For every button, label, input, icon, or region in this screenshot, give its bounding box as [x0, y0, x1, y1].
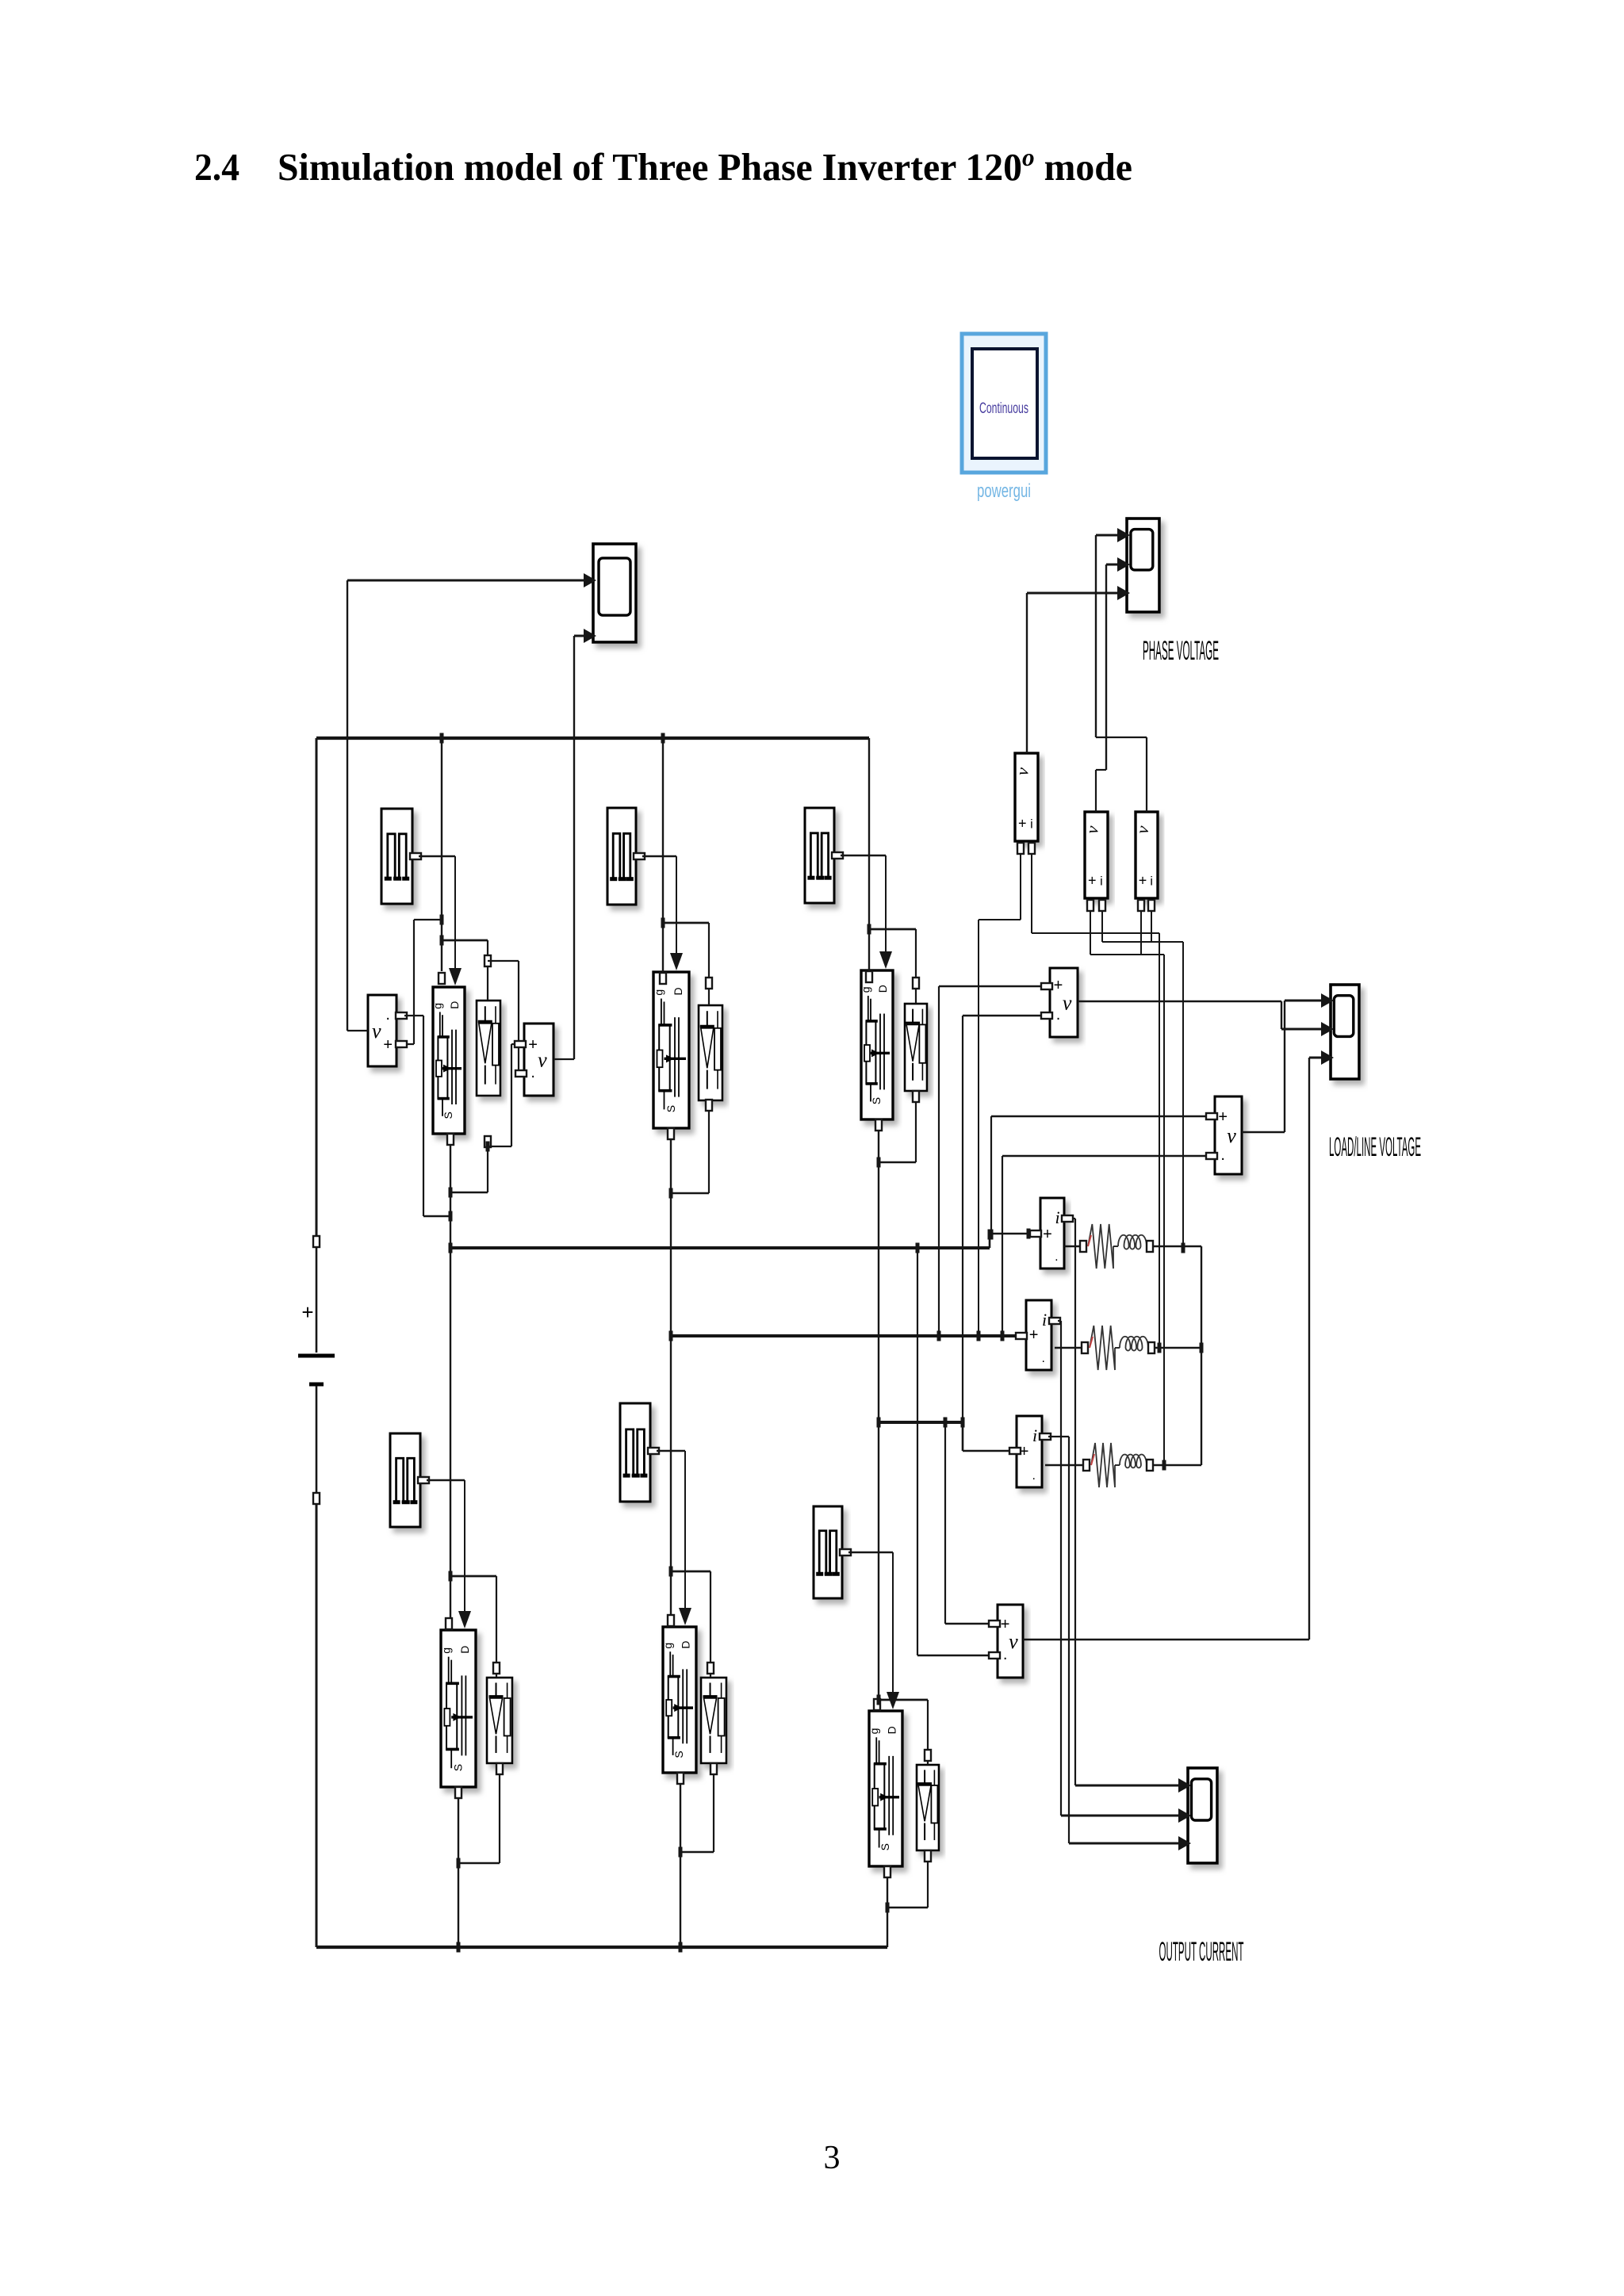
- junction neutral phase B: [1200, 1343, 1204, 1353]
- svg-text:i: i: [1032, 1425, 1037, 1445]
- wire leg4 drain drop: [446, 1248, 452, 1629]
- wire V2+ from midpoint: [488, 1041, 526, 1146]
- series RL load phase B (R2 L2): [1082, 1326, 1155, 1370]
- wire I1 load branch phase A: [1064, 1246, 1183, 1248]
- wire V1+ tap: [396, 920, 442, 1047]
- junction snubber5/source: [679, 1847, 683, 1858]
- wire phase A bus: [450, 1230, 1041, 1248]
- junction leg3 snubber tap: [868, 924, 871, 935]
- wire snubber2 bottom: [671, 1100, 712, 1193]
- svg-text:g: g: [653, 989, 665, 996]
- svg-text:+: +: [1043, 1226, 1052, 1243]
- snubber diode D3: [905, 1004, 927, 1091]
- svg-text:powergui: powergui: [977, 480, 1031, 502]
- wire gate6 from PG6: [840, 1549, 899, 1709]
- svg-text:LOAD/LINE VOLTAGE: LOAD/LINE VOLTAGE: [1329, 1132, 1421, 1162]
- svg-text:+: +: [1088, 873, 1097, 889]
- wire V5- from phase B: [1002, 1153, 1217, 1336]
- svg-text:i: i: [1100, 875, 1103, 889]
- wire leg5 source to dc- bus: [677, 1773, 684, 1947]
- svg-text:OUTPUT CURRENT: OUTPUT CURRENT: [1159, 1937, 1244, 1967]
- wire leg3 drain drop: [866, 738, 872, 982]
- junction phase A V4- tap: [916, 1243, 920, 1253]
- junction leg5 snubber tap: [669, 1567, 673, 1577]
- svg-text:.: .: [1032, 1469, 1036, 1483]
- dc voltage source B1: [298, 1236, 335, 1504]
- wire dc+ top bus: [316, 737, 869, 740]
- wire leg6 drain drop: [874, 1422, 880, 1710]
- junction leg2 snubber tap: [661, 918, 665, 928]
- junction on phase B load line: [1158, 1343, 1162, 1353]
- wire VM2 pins down: [1087, 900, 1164, 1465]
- wire leg5 snubber top: [671, 1571, 714, 1678]
- svg-text:.: .: [1003, 1646, 1008, 1663]
- wire I2 current output to OUTPUT CURRENT in2: [1049, 1318, 1185, 1816]
- snubber diode D2: [699, 1005, 722, 1100]
- wire VM1 output to PHASE VOLTAGE in3: [1027, 593, 1124, 753]
- powergui block: [962, 334, 1046, 473]
- wire leg5 drain drop: [668, 1336, 674, 1626]
- wire dc- bus: [316, 1505, 887, 1947]
- junction snubber4/source: [457, 1858, 461, 1869]
- wire leg4 snubber top: [450, 1576, 500, 1678]
- junction snubber2/source: [669, 1188, 673, 1199]
- junction dc- leg4: [457, 1942, 461, 1953]
- series RL load phase A (R1 L1): [1080, 1224, 1153, 1269]
- wire leg3 snubber top: [869, 929, 919, 1004]
- junction V5+ tap: [990, 1230, 994, 1240]
- wire V3- from phase C: [963, 1012, 1052, 1422]
- mosfet Q2: [653, 972, 689, 1128]
- pulse generator PG3: [805, 808, 834, 903]
- mosfet Q1: [431, 987, 465, 1134]
- svg-text:2.4: 2.4: [194, 145, 239, 189]
- junction snubber3/source: [877, 1158, 881, 1168]
- snubber diode D1: [477, 1001, 500, 1096]
- wire V1- to source node: [396, 1012, 450, 1216]
- svg-text:+: +: [1139, 873, 1147, 889]
- svg-text:S: S: [451, 1764, 464, 1771]
- svg-text:+: +: [1018, 815, 1027, 831]
- svg-text:D: D: [886, 1726, 898, 1734]
- wire V4- from phase A: [917, 1248, 1000, 1659]
- svg-text:v: v: [1227, 1124, 1236, 1147]
- pulse generator PG1: [381, 809, 412, 904]
- pulse generator PG6: [814, 1506, 842, 1598]
- junction snubber6/source: [886, 1903, 890, 1913]
- junction phase A VM1 tap: [1027, 1229, 1031, 1239]
- junction V3+ tap: [937, 1331, 941, 1341]
- wire VM3 output to PHASE VOLTAGE in1: [1096, 535, 1147, 812]
- svg-text:+: +: [1054, 977, 1063, 994]
- scope PHASE VOLTAGE: [1117, 519, 1159, 612]
- svg-text:+: +: [1029, 1326, 1039, 1344]
- wire gate3 from PG3: [832, 852, 892, 969]
- svg-text:S: S: [879, 1843, 891, 1850]
- current measurement I1: [1040, 1198, 1064, 1269]
- svg-text:i: i: [1055, 1207, 1060, 1227]
- wire V3 output to LOAD scope in2: [1078, 1001, 1327, 1029]
- wire gate4 from PG4: [418, 1477, 471, 1628]
- pulse generator PG4: [390, 1433, 420, 1527]
- wire VM2 output to PHASE VOLTAGE in2: [1096, 564, 1124, 812]
- current measurement I2: [1026, 1300, 1051, 1370]
- wire snubber1 bottom: [450, 1136, 491, 1192]
- svg-text:S: S: [665, 1105, 677, 1112]
- wire V2- tap from snubber node: [488, 961, 527, 1077]
- voltage measurement VM3 (phase C): [1132, 812, 1158, 898]
- svg-text:i: i: [1042, 1310, 1047, 1330]
- snubber diode D5: [701, 1678, 726, 1763]
- wire dc+ from source to top bus: [316, 738, 318, 1236]
- wire leg2 snubber top: [663, 923, 712, 1005]
- snubber diode D6: [917, 1765, 939, 1850]
- mosfet Q4: [439, 1630, 476, 1787]
- wire phase B bus: [671, 1333, 1027, 1339]
- svg-text:PHASE VOLTAGE: PHASE VOLTAGE: [1143, 636, 1219, 666]
- mosfet Q6: [868, 1711, 902, 1866]
- voltage measurement V1: [368, 995, 396, 1066]
- wire V4+ from phase C: [945, 1422, 1000, 1627]
- junction V3- corner on phase C: [961, 1418, 965, 1428]
- svg-text:+: +: [383, 1036, 393, 1054]
- svg-text:+: +: [528, 1036, 538, 1054]
- voltage measurement V2: [524, 1024, 553, 1096]
- wire V1 output to Scope1 in1: [347, 580, 590, 1031]
- junction on phase A load line: [1182, 1243, 1185, 1253]
- wire gate5 from PG5: [648, 1448, 691, 1625]
- wire V2 output to Scope1 in2: [553, 636, 590, 1059]
- svg-text:.: .: [1055, 1250, 1058, 1264]
- junction dc+ leg1: [440, 733, 444, 744]
- svg-text:+: +: [301, 1300, 313, 1324]
- wire leg1 drain drop: [439, 738, 445, 984]
- wire leg1 source to phase A: [447, 1134, 454, 1248]
- wire leg4 source to dc- bus: [455, 1787, 462, 1947]
- svg-text:S: S: [672, 1751, 685, 1758]
- voltage measurement V3 (line AB?): [1050, 968, 1078, 1037]
- wire V5+ from phase A: [991, 1113, 1217, 1234]
- wire leg6 source to dc- bus: [884, 1866, 891, 1947]
- wire leg3 source to phase C: [875, 1119, 882, 1422]
- svg-text:.: .: [385, 1006, 390, 1024]
- wire VM3 pins down: [1138, 900, 1155, 955]
- svg-text:g: g: [859, 986, 871, 993]
- junction V5- tap: [1001, 1331, 1005, 1341]
- wire leg2 drain drop: [660, 738, 666, 984]
- wire snubber3 bottom: [879, 1091, 919, 1162]
- junction leg6 snubber tap: [877, 1695, 881, 1705]
- svg-text:g: g: [439, 1647, 452, 1654]
- voltage measurement V4 (line): [998, 1605, 1023, 1678]
- current measurement I3: [1017, 1416, 1042, 1487]
- wire snubber6 bottom: [887, 1850, 931, 1908]
- wire I3 current output to OUTPUT CURRENT in3: [1040, 1433, 1185, 1843]
- svg-text:i: i: [1150, 875, 1153, 889]
- junction V2+ tap: [486, 1142, 490, 1152]
- junction phase A leg1: [449, 1243, 453, 1253]
- wire VM1 right pin to neutral bus: [1032, 854, 1159, 1348]
- svg-text:g: g: [868, 1728, 880, 1735]
- junction dc- leg5: [679, 1942, 683, 1953]
- svg-text:D: D: [448, 1001, 461, 1009]
- wire VM2 right pin: [1102, 911, 1183, 1248]
- svg-text:Simulation model of Three Phas: Simulation model of Three Phase Inverter…: [278, 143, 1132, 189]
- junction leg1 V1+ tap: [440, 915, 444, 925]
- snubber diode D4: [487, 1678, 512, 1763]
- svg-text:.: .: [1042, 1352, 1045, 1365]
- svg-text:.: .: [1056, 1006, 1061, 1024]
- scope LOAD/LINE VOLTAGE: [1321, 985, 1359, 1079]
- voltage measurement VM1 (phase A): [1012, 753, 1038, 841]
- svg-text:D: D: [680, 1640, 692, 1648]
- svg-text:D: D: [458, 1646, 471, 1654]
- junction leg4 snubber tap: [449, 1571, 453, 1582]
- svg-text:v: v: [1009, 1630, 1018, 1653]
- voltage measurement VM2 (phase B): [1082, 812, 1108, 898]
- junction phase C leg3: [877, 1418, 881, 1428]
- svg-text:S: S: [442, 1112, 454, 1119]
- svg-text:g: g: [431, 1003, 443, 1009]
- svg-text:g: g: [661, 1643, 674, 1649]
- wire VM1 pins down: [979, 843, 1035, 1336]
- svg-text:3: 3: [824, 2140, 841, 2176]
- series RL load phase C (R3 L3): [1083, 1443, 1153, 1487]
- svg-text:v: v: [538, 1049, 547, 1072]
- svg-text:i: i: [1030, 817, 1033, 831]
- wire I2 load branch phase B: [1055, 1347, 1201, 1349]
- pulse generator PG5: [620, 1403, 650, 1502]
- voltage measurement V5 (line): [1215, 1096, 1242, 1174]
- svg-text:Continuous: Continuous: [979, 400, 1028, 417]
- wire V4 output to LOAD scope in3: [1023, 1058, 1327, 1640]
- junction phase A step corner: [988, 1230, 992, 1240]
- pulse generator PG2: [607, 808, 636, 905]
- junction snubber1/source: [449, 1188, 453, 1198]
- wire phase C bus: [879, 1422, 1021, 1454]
- wire leg2 source to phase B: [668, 1128, 674, 1336]
- junction dc+ leg2: [661, 733, 665, 744]
- wire gate2 from PG2: [634, 853, 683, 970]
- wire V3+ from phase B: [939, 983, 1052, 1336]
- svg-text:v: v: [1063, 992, 1072, 1015]
- scope Scope1 (mosfet voltages): [584, 544, 636, 643]
- svg-text:S: S: [870, 1097, 883, 1104]
- mosfet Q5: [661, 1627, 696, 1773]
- svg-text:v: v: [372, 1020, 381, 1043]
- wire snubber5 bottom: [680, 1763, 717, 1852]
- junction VM1 tap on phase B: [977, 1331, 981, 1341]
- wire gate1 from PG1: [410, 853, 462, 985]
- junction phase B leg2: [669, 1331, 673, 1341]
- svg-text:.: .: [1220, 1146, 1225, 1164]
- mosfet Q3: [859, 970, 893, 1119]
- wire leg1 snubber top: [442, 940, 491, 1001]
- wire snubber4 bottom: [458, 1763, 503, 1863]
- wire phase A to neutral: [1183, 1246, 1201, 1465]
- junction V1- tap: [449, 1211, 453, 1222]
- svg-text:.: .: [530, 1064, 535, 1081]
- scope OUTPUT CURRENT: [1178, 1768, 1217, 1863]
- svg-text:+: +: [1218, 1108, 1228, 1126]
- junction V4+ tap: [944, 1418, 948, 1428]
- junction on phase C load line: [1162, 1460, 1166, 1471]
- wire V5 output to LOAD scope in1: [1242, 1001, 1327, 1132]
- wire leg6 snubber top: [879, 1700, 931, 1765]
- wire I3 load branch phase C: [1045, 1464, 1201, 1467]
- svg-text:+: +: [1001, 1616, 1010, 1633]
- wire I1 current output to OUTPUT CURRENT in1: [1062, 1215, 1185, 1785]
- junction leg1 snubber tap: [440, 936, 444, 946]
- svg-text:D: D: [672, 987, 684, 995]
- svg-text:D: D: [876, 985, 889, 993]
